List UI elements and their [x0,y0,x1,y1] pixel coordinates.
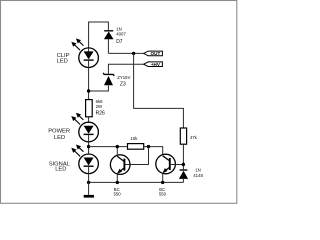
svg-text:D7: D7 [116,39,123,45]
node Q2 base / 47k / diode junction [182,163,185,166]
svg-text:ZY15V: ZY15V [117,75,130,80]
svg-text:+HV: +HV [151,62,161,67]
wire Q1 base link [124,147,148,165]
svg-text:1N: 1N [195,167,201,172]
wire bottom rail [89,181,184,183]
node rail-collector junction [87,145,90,148]
node Q2 emitter junction [161,181,164,184]
svg-text:2W: 2W [96,104,103,109]
node zener-rail junction [87,89,90,92]
wire 10k to Q2 collector corner [144,147,163,156]
ground [84,182,94,197]
svg-text:4148: 4148 [193,173,203,178]
resistor 47k [180,128,197,144]
zener Z3 [103,73,130,88]
node Q1 base drop junction [147,145,150,148]
svg-text:LED: LED [57,59,68,65]
transistor Q1 [110,147,130,197]
wire Q2 base to diode junction [170,164,184,166]
svg-text:Z3: Z3 [120,81,126,87]
wire OUT net [108,52,143,54]
wire top bracket from CLIP LED to D7 [89,22,109,48]
frame border [1,1,237,204]
svg-text:OUT: OUT [151,51,161,56]
diode 1N4148 [179,167,204,182]
connector tag OUT [144,51,163,56]
wire OUT drop to 47k [134,53,184,128]
wire collector run to 10k [89,146,128,148]
LED POWER [48,113,98,142]
svg-text:10k: 10k [131,136,139,141]
wire rail CLIP to R26 [88,68,90,100]
wire rail POWER to SIGNAL [88,142,90,154]
svg-text:POWER: POWER [48,129,70,135]
wire R26 to POWER LED [88,117,90,122]
LED SIGNAL [49,145,99,183]
wire +HV net [108,64,143,74]
svg-text:550: 550 [159,192,167,197]
transistor Q2 [156,154,176,196]
svg-text:LED: LED [55,167,66,173]
node Q1 collector junction [116,145,119,148]
wire zener to rail [89,85,109,91]
node Q1 emitter junction [116,181,119,184]
node OUT junction [132,52,135,55]
svg-text:4007: 4007 [116,32,126,37]
svg-text:47k: 47k [190,135,198,140]
connector tag +HV [144,62,163,67]
node rail-ground junction [87,181,90,184]
diode D7 [104,27,126,54]
resistor R26 [86,99,105,117]
svg-text:R26: R26 [96,111,105,117]
svg-text:550: 550 [114,192,122,197]
resistor 10k [128,136,144,149]
LED CLIP [57,38,99,67]
wire 47k to junction [182,144,184,169]
svg-text:LED: LED [54,135,65,141]
